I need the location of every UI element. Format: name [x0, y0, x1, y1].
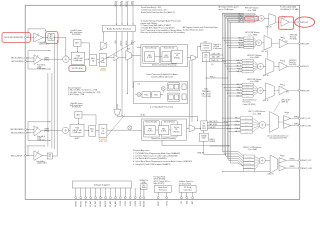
bus taps to HPLCOM stack	[222, 36, 244, 49]
output group HPRCOM	[247, 79, 261, 83]
pin MIC3L/MIC3R/MICDET	[5, 36, 27, 39]
mux HPRCOM	[263, 83, 274, 102]
pin IOVDD	[119, 188, 122, 206]
wire amp3 to sum	[42, 129, 63, 133]
driver amp HPLCOM	[271, 37, 287, 48]
wire DAC R stubs to analog bus	[207, 120, 231, 129]
wire HP mux cascade 1	[266, 26, 268, 36]
block MICBIAS	[140, 179, 149, 189]
summing node RIGHT_LO	[255, 157, 266, 171]
note loopback processing text	[146, 73, 177, 78]
note output switches text	[267, 135, 288, 140]
green marker HPRCOM	[286, 91, 289, 93]
pin MFP	[192, 192, 195, 204]
svg-text:LEFT_LOPM Volume: LEFT_LOPM Volume	[248, 111, 265, 113]
wire bracket group4	[26, 145, 45, 156]
svg-text:MIC2L/LINE2L-: MIC2L/LINE2L-	[12, 61, 25, 63]
amp buffer post-filter	[106, 55, 118, 62]
pin MICBIAS	[143, 189, 146, 207]
output group HPROUT	[247, 55, 261, 59]
svg-text:0dB-59.5dB: 0dB-59.5dB	[74, 58, 84, 60]
wires vertical inter-processing	[190, 60, 193, 125]
red highlight box around HPLOUT driver	[279, 17, 294, 30]
wire feedback above amp1	[28, 29, 46, 37]
wire block1 to left sum node	[54, 37, 66, 56]
bus taps to HPRCOM stack	[222, 83, 242, 97]
pin AVDD_ADC	[109, 188, 112, 209]
wire diagonal route left	[98, 41, 136, 63]
svg-text:MCLK: MCLK	[115, 1, 117, 7]
pin BCLK (top)	[121, 1, 124, 25]
pin DRVDD2	[100, 188, 103, 207]
wire zero dB bypass line	[117, 114, 198, 121]
wire serial DIN	[115, 32, 117, 110]
pin RIGHT_LOM	[286, 166, 312, 170]
svg-text:RIGHT_LOP: RIGHT_LOP	[301, 160, 312, 162]
block Audio Serial Bus Interface	[103, 25, 136, 31]
pin DVDD1	[124, 188, 127, 206]
driver amp HPLOUT	[276, 16, 290, 26]
block AGC right	[70, 102, 96, 126]
block PGA right	[69, 124, 84, 140]
svg-text:RIGHT_LOM: RIGHT_LOM	[301, 168, 312, 170]
pin WCLK (top)	[126, 1, 129, 25]
svg-text:0dB-59.5dB: 0dB-59.5dB	[73, 130, 83, 132]
bus bottom staircase to RIGHT_LO stack	[223, 152, 244, 167]
block Voltage Supplies	[73, 181, 132, 188]
bus taps to LEFT_LO stack	[222, 117, 240, 134]
block ADC sigma-delta left	[85, 55, 97, 66]
svg-text:MIC2R/LINE2R-: MIC2R/LINE2R-	[11, 133, 24, 135]
wire vertical route B	[56, 40, 58, 156]
node mix right input	[128, 126, 132, 131]
mux LEFT_LO	[266, 112, 279, 133]
mux ADC-out to serial	[100, 32, 107, 51]
red highlight box below PGA left	[69, 66, 86, 72]
wire diagonal route right	[107, 115, 125, 137]
pin LEFT_LOM	[291, 124, 311, 128]
label L digital audio processing	[150, 106, 173, 109]
summing node HPLOUT	[254, 14, 264, 22]
block DAC sigma-delta left	[202, 50, 210, 62]
mux HPROUT	[263, 59, 274, 78]
wire bracket group3	[27, 121, 51, 141]
svg-text:P_Gain adj (0.5dB): P_Gain adj (0.5dB)	[280, 7, 296, 9]
svg-text:HPRCOM Volume: HPRCOM Volume	[247, 79, 261, 81]
wire serial GPIO	[132, 32, 134, 88]
red highlight ellipse around HPLOUT pin	[295, 17, 315, 27]
op-amp input PGA2	[34, 55, 46, 70]
volume stack RIGHT_LO	[243, 155, 254, 172]
wire vertical route D	[51, 73, 53, 148]
block digital decimation filter left	[97, 53, 107, 66]
wire serial DOUT	[121, 32, 123, 116]
note DAC power text	[201, 87, 211, 98]
block group Normal Right Channel Processing	[142, 119, 187, 140]
pin MCLK (top)	[115, 1, 118, 25]
mux post processing right	[186, 125, 200, 132]
wire PGA_R route to bus	[198, 138, 230, 155]
pin HPRCOM	[288, 90, 310, 93]
svg-text:MIC3L/MIC3R/MICDET: MIC3L/MIC3R/MICDET	[5, 37, 25, 39]
red highlight box around ADC snoop block	[46, 32, 58, 44]
note serial data bus text	[141, 6, 175, 14]
note output volume gains text	[219, 6, 239, 11]
pin DVSS1	[129, 188, 132, 206]
label filter registers right	[99, 139, 108, 143]
volume stack HPLOUT	[243, 13, 254, 23]
wire DAC L down to DAC R	[205, 59, 207, 121]
pin AVDD_DAC	[89, 188, 92, 209]
wire input1 to amp	[26, 37, 33, 38]
svg-text:MIC1/LINE1R: MIC1/LINE1R	[11, 155, 23, 157]
output group HPLOUT	[245, 8, 259, 12]
label zero dBFS left	[137, 47, 142, 49]
bus taps to HPROUT stack	[222, 59, 242, 73]
svg-text:WCLK: WCLK	[126, 1, 128, 7]
svg-text:BCLK: BCLK	[121, 1, 123, 6]
chip boundary	[25, 5, 300, 199]
pin HPLOUT	[289, 21, 309, 24]
summing node HPRCOM	[253, 85, 263, 97]
note P gain adj text	[280, 7, 299, 11]
note digital volume range	[213, 43, 222, 50]
block reset generation	[154, 185, 171, 192]
svg-text:RIGHT_LOPM Volume: RIGHT_LOPM Volume	[243, 147, 261, 149]
note short circuit text HPROUT	[289, 60, 297, 66]
block DAC sigma-delta right	[201, 121, 208, 130]
wire amp1 to block	[43, 37, 48, 38]
volume stack HPROUT	[242, 59, 253, 73]
note record processing text	[141, 20, 185, 35]
pins MIC2L/LINE2L differential	[11, 57, 26, 63]
svg-text:HPLOUT Volume: HPLOUT Volume	[245, 8, 259, 10]
svg-text:HPLCOM Volume: HPLCOM Volume	[245, 32, 259, 34]
volume stack HPLCOM	[244, 37, 254, 49]
wire amp2 to sum	[42, 57, 63, 61]
wire vertical route A	[54, 37, 55, 150]
wire bus to RIGHT_LO mux direct	[222, 170, 270, 173]
pin DRVDD1	[75, 188, 78, 207]
svg-text:HPLCOM: HPLCOM	[301, 43, 309, 45]
volume stack LEFT_LO	[240, 117, 252, 134]
wire PWD_L to bus	[206, 76, 228, 78]
pin GPIO1	[166, 192, 169, 205]
volume stack HPRCOM	[242, 83, 253, 97]
mux right ADC out	[114, 104, 121, 115]
block ADC sigma-delta right	[84, 125, 96, 136]
pin SDA	[185, 192, 188, 204]
block PGA left	[69, 52, 85, 64]
wire vertical route C	[47, 73, 49, 147]
block timing guide	[199, 130, 208, 141]
output group HPLCOM	[245, 32, 259, 36]
pin AVSS_DAC	[94, 188, 97, 209]
note relevant app notes	[133, 149, 192, 166]
mux HPLOUT	[264, 14, 276, 29]
pin AVSS_ADC	[114, 188, 117, 209]
wire DAC L stubs to analog bus	[210, 53, 226, 66]
op-amp input PGA4	[34, 151, 48, 165]
pin DRVSS1	[80, 188, 83, 207]
pin DVDD2	[134, 188, 137, 206]
mux HPLCOM	[262, 36, 272, 53]
mux post processing left	[188, 46, 201, 60]
driver amp LEFT_LO	[278, 112, 290, 128]
red highlight on HPLOUT stack row	[245, 16, 259, 21]
mux left DAC input	[119, 49, 141, 61]
bus taps to HPLOUT stack	[222, 12, 243, 23]
driver amp RIGHT_LO	[278, 155, 287, 171]
block AGC left	[70, 29, 90, 54]
svg-text:LEFT_LOP: LEFT_LOP	[301, 118, 311, 120]
pin SCL	[180, 192, 183, 204]
op-amp input PGA3	[34, 126, 46, 142]
summing node left ADC	[63, 56, 69, 62]
note register control text	[183, 26, 218, 31]
summing node LEFT_LO	[253, 118, 266, 132]
summing node HPLCOM	[254, 38, 262, 48]
bus top corner taps to HPLOUT stack	[223, 13, 244, 22]
pin MIC1R/LINE1R	[11, 155, 26, 158]
block gain aux	[42, 153, 57, 159]
wire filter right to processing	[107, 129, 142, 131]
block I2C control	[179, 185, 196, 192]
block Volume Control left	[201, 41, 212, 50]
svg-text:(P0 R15-R16): (P0 R15-R16)	[72, 68, 83, 70]
mux RIGHT_LO	[265, 155, 277, 176]
output group LEFT_LO	[248, 111, 265, 115]
pin DIN (top)	[132, 1, 135, 25]
pin HPROUT	[288, 65, 310, 68]
label HPL_M bypass	[274, 100, 290, 112]
svg-text:HPROUT Volume: HPROUT Volume	[247, 55, 261, 57]
note software reset text	[179, 180, 193, 185]
label filter registers left	[100, 68, 107, 72]
summing node HPROUT	[253, 61, 263, 72]
note GPIO register text	[154, 177, 171, 185]
pin DRVSS2	[105, 188, 108, 207]
svg-text:MIC2L/LINE2L+: MIC2L/LINE2L+	[11, 58, 24, 60]
block digital decimation filter right	[96, 124, 107, 137]
op-amp input PGA1	[34, 33, 50, 46]
pin HPVDD	[85, 188, 88, 206]
block MIC ADC detect	[48, 34, 54, 41]
svg-text:HPLOUT: HPLOUT	[301, 22, 309, 24]
driver amp HPRCOM	[274, 84, 287, 95]
svg-text:SCLK: SCLK	[126, 40, 128, 45]
svg-text:MIC2R/LINE2R+: MIC2R/LINE2R+	[11, 129, 24, 131]
pin HPLCOM	[288, 43, 310, 46]
pins MIC2R/LINE2R differential	[11, 129, 27, 135]
pin RESET	[157, 192, 160, 206]
block group L Digital Audio Processing	[134, 82, 188, 104]
note status registers	[68, 86, 101, 96]
pin RIGHT_LOP	[286, 158, 312, 162]
svg-text:Volume: Volume	[203, 45, 209, 47]
bus analog routing verticals	[223, 13, 231, 163]
red highlight box around MIC3 input label	[2, 32, 30, 42]
wire bracket group2	[27, 50, 51, 69]
svg-text:HPRCOM: HPRCOM	[301, 90, 309, 92]
wire HP mux cascade 2	[267, 50, 269, 59]
driver amp HPROUT	[274, 60, 288, 71]
wire lower long route	[162, 140, 229, 146]
note short-ckt thermal text	[243, 98, 257, 106]
wire serial SCLK	[126, 32, 128, 94]
output group RIGHT_LO	[243, 147, 261, 151]
note short circuit text HPLCOM	[290, 35, 298, 41]
svg-text:HPROUT: HPROUT	[301, 66, 309, 68]
svg-text:LEFT_LOM: LEFT_LOM	[301, 125, 311, 127]
green marker HPLCOM	[285, 41, 288, 43]
block group Normal Left Channel Processing	[141, 45, 188, 67]
pin LEFT_LOP	[291, 117, 311, 121]
svg-text:CTL (P10B): CTL (P10B)	[202, 96, 211, 98]
pin DVSS2	[139, 188, 142, 206]
summing node right ADC	[62, 127, 68, 133]
